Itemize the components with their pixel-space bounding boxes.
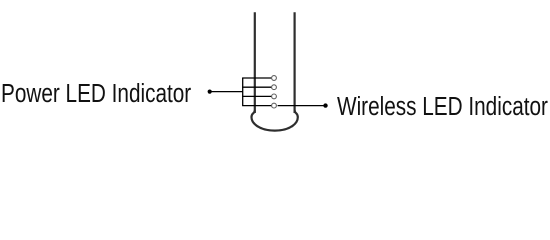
power callout bullet — [208, 90, 212, 94]
LED hole 1 — [272, 76, 277, 81]
device left side line — [254, 12, 256, 113]
LED hole 4 — [272, 103, 277, 108]
LED hole 2 — [272, 85, 277, 90]
callout bracket vertical — [242, 78, 244, 106]
power callout leader line — [210, 91, 243, 93]
device right side line — [294, 12, 296, 113]
bracket row line 2 — [242, 86, 271, 88]
bracket row line 1 — [242, 77, 271, 79]
bracket row line 4 — [242, 105, 271, 107]
wireless callout bullet — [323, 103, 327, 107]
device rounded bottom — [252, 110, 298, 130]
LED hole 3 — [272, 94, 277, 99]
label: Wireless LED Indicator — [337, 93, 548, 119]
bracket row line 3 — [242, 95, 271, 97]
label: Power LED Indicator — [1, 80, 191, 106]
wireless leader line — [278, 105, 326, 107]
